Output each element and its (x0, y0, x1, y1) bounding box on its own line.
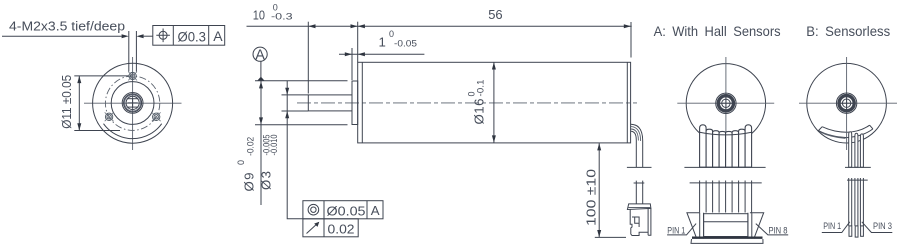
svg-text:A: A (371, 203, 380, 218)
front view crimp arc bottom (104, 124, 162, 139)
svg-text:-0.010: -0.010 (269, 135, 279, 156)
view B cable slot band inner arc (822, 125, 869, 132)
cable lower segment (636, 181, 642, 204)
view A hub thick ring (718, 96, 733, 111)
connector A left wing (687, 213, 700, 239)
view B break line upper (845, 166, 871, 168)
svg-text:4-M2x3.5 tief/deep: 4-M2x3.5 tief/deep (9, 19, 125, 34)
cable bend at rear (631, 124, 643, 167)
svg-text:B: Sensorless: B: Sensorless (806, 24, 890, 39)
view B wires upper segment (849, 132, 864, 168)
dimension D9 line (259, 81, 263, 205)
svg-text:-0.05: -0.05 (394, 38, 417, 48)
dimension D3 line with leader to frames (287, 81, 303, 219)
view B hub thick ring (839, 96, 854, 111)
flange boss D9 (352, 81, 358, 125)
svg-text:-0.1: -0.1 (476, 80, 486, 97)
front view flange boss circle (111, 82, 154, 125)
bolt circle dash-dot D11 (105, 76, 159, 130)
PIN 3 leader B (862, 222, 893, 233)
view B vertical centerline (846, 57, 848, 150)
view B band end caps (818, 125, 873, 130)
front view vertical centerline (132, 57, 134, 150)
view A housing edge arc over ribbon (700, 132, 752, 135)
hub bearing ring middle (124, 94, 142, 112)
PIN 1 leader A (667, 224, 696, 235)
connector A bottom lip (691, 239, 763, 243)
svg-text:Ø9: Ø9 (241, 173, 256, 192)
cable break line lower (634, 182, 645, 184)
svg-text:56: 56 (488, 7, 502, 22)
view A hub inner circle (722, 99, 730, 107)
svg-text:PIN 1: PIN 1 (823, 221, 841, 231)
100 dim bottom extension (595, 236, 626, 238)
100 +-10 dimension (597, 143, 601, 237)
svg-text:PIN 8: PIN 8 (769, 225, 788, 235)
view B cable slot band outer arc (818, 129, 873, 138)
D3 extension bottom (282, 110, 309, 112)
view B band lower-left double arc (820, 132, 846, 139)
cable break line upper (627, 166, 652, 168)
connector side view body (630, 210, 648, 236)
connector A pocket divider (704, 221, 748, 223)
arrow left of hole (122, 34, 129, 38)
hub bearing ring third (125, 95, 141, 111)
connector side view right wall (648, 208, 651, 235)
connector A pocket (704, 214, 748, 237)
svg-text:-0.3: -0.3 (271, 11, 293, 21)
arrows at body front (351, 24, 358, 28)
svg-text:0.02: 0.02 (328, 221, 355, 236)
M2 hole top (128, 72, 137, 81)
datum A triangle (257, 77, 264, 81)
hub shaft flats (127, 98, 138, 100)
datum A symbol circle (253, 47, 267, 63)
D11 extension bottom (74, 130, 120, 132)
concentricity tolerance frame (303, 201, 383, 219)
svg-text:A: A (255, 48, 265, 64)
view B wires lower segment (849, 178, 864, 226)
D9 extension top (255, 80, 348, 82)
view B outer circle (807, 63, 887, 143)
svg-text:Ø16: Ø16 (472, 99, 487, 125)
svg-text:PIN 3: PIN 3 (873, 221, 892, 231)
view B horizontal centerline (799, 102, 897, 104)
motor body rectangle (358, 62, 631, 143)
svg-text:Ø11 ±0.05: Ø11 ±0.05 (59, 75, 74, 129)
view A hub cross (720, 97, 732, 109)
hub bearing ring outer (122, 93, 143, 114)
datum A leader (260, 61, 262, 77)
runout tolerance frame (303, 219, 358, 237)
connector A bottom thick band (692, 236, 763, 238)
D9 extension bottom (255, 124, 348, 126)
extension line flange left (351, 48, 353, 80)
view A break line lower (690, 182, 762, 184)
svg-text:100 ±10: 100 ±10 (584, 169, 599, 226)
front view horizontal centerline (84, 102, 182, 104)
extension line body front (357, 22, 359, 63)
dimension D16 line (492, 62, 496, 142)
hub bearing ring inner (126, 96, 139, 109)
view B wire crimp tips (849, 226, 863, 237)
shaft D3 (308, 95, 352, 111)
leader line for M2 note (2, 35, 122, 37)
body front cap line (361, 62, 363, 143)
connector A inner walls (700, 213, 752, 239)
connector side view cap (627, 204, 651, 210)
connector side latch detail (632, 217, 639, 227)
M2 hole lower left (105, 112, 114, 121)
svg-text:-0.02: -0.02 (245, 137, 255, 156)
side view centerline (297, 102, 637, 104)
svg-text:0: 0 (236, 160, 246, 165)
view A break line upper (684, 166, 765, 168)
view B hub cross (841, 97, 853, 109)
view A vertical centerline (725, 57, 727, 150)
view B hub inner circle (842, 99, 850, 107)
M2 hole extension lines (129, 31, 137, 72)
connector A right wing (750, 213, 764, 239)
svg-text:10: 10 (253, 7, 265, 22)
arrows for 1 dim (345, 52, 352, 56)
dimension D11 line (77, 76, 81, 131)
runout arrow symbol (307, 222, 320, 234)
hub center cross (127, 98, 137, 108)
body rear cap line (626, 62, 628, 143)
view A outer circle (686, 64, 765, 143)
M2 hole lower right (152, 112, 161, 121)
view B break line lower (847, 179, 868, 181)
extension line body rear (630, 22, 632, 58)
D3 arrows (285, 88, 289, 95)
D3 extension top (282, 94, 309, 96)
stub to tolerance frame (144, 35, 153, 37)
front view outer circle (motor housing D16) (93, 63, 173, 143)
svg-text:PIN 1: PIN 1 (667, 225, 685, 235)
view A lower ribbon wires (700, 181, 752, 213)
arrow at shaft end (308, 24, 315, 28)
view A horizontal centerline (677, 102, 774, 104)
svg-text:A: A (213, 28, 223, 44)
svg-text:Ø3: Ø3 (258, 171, 273, 190)
svg-text:1: 1 (379, 34, 386, 49)
position tolerance frame (153, 26, 225, 46)
position symbol (156, 29, 170, 43)
arrow at body rear (624, 24, 631, 28)
D11 extension top (74, 75, 128, 77)
extension line shaft end (307, 22, 309, 94)
main dimension line 10/56 (247, 25, 632, 27)
svg-text:Ø0.05: Ø0.05 (327, 203, 366, 218)
concentricity symbol (308, 204, 319, 215)
view A ribbon cable wires (700, 125, 752, 167)
dimension line 1 (339, 53, 424, 55)
PIN 8 leader A (756, 224, 788, 235)
view A hub outer ring (716, 93, 736, 113)
svg-text:Ø0.3: Ø0.3 (178, 28, 207, 44)
svg-text:A: With Hall Sensors: A: With Hall Sensors (654, 24, 781, 39)
arrow right of hole (136, 34, 143, 38)
view B hub outer ring (836, 93, 856, 113)
PIN 1 leader B (822, 222, 850, 233)
